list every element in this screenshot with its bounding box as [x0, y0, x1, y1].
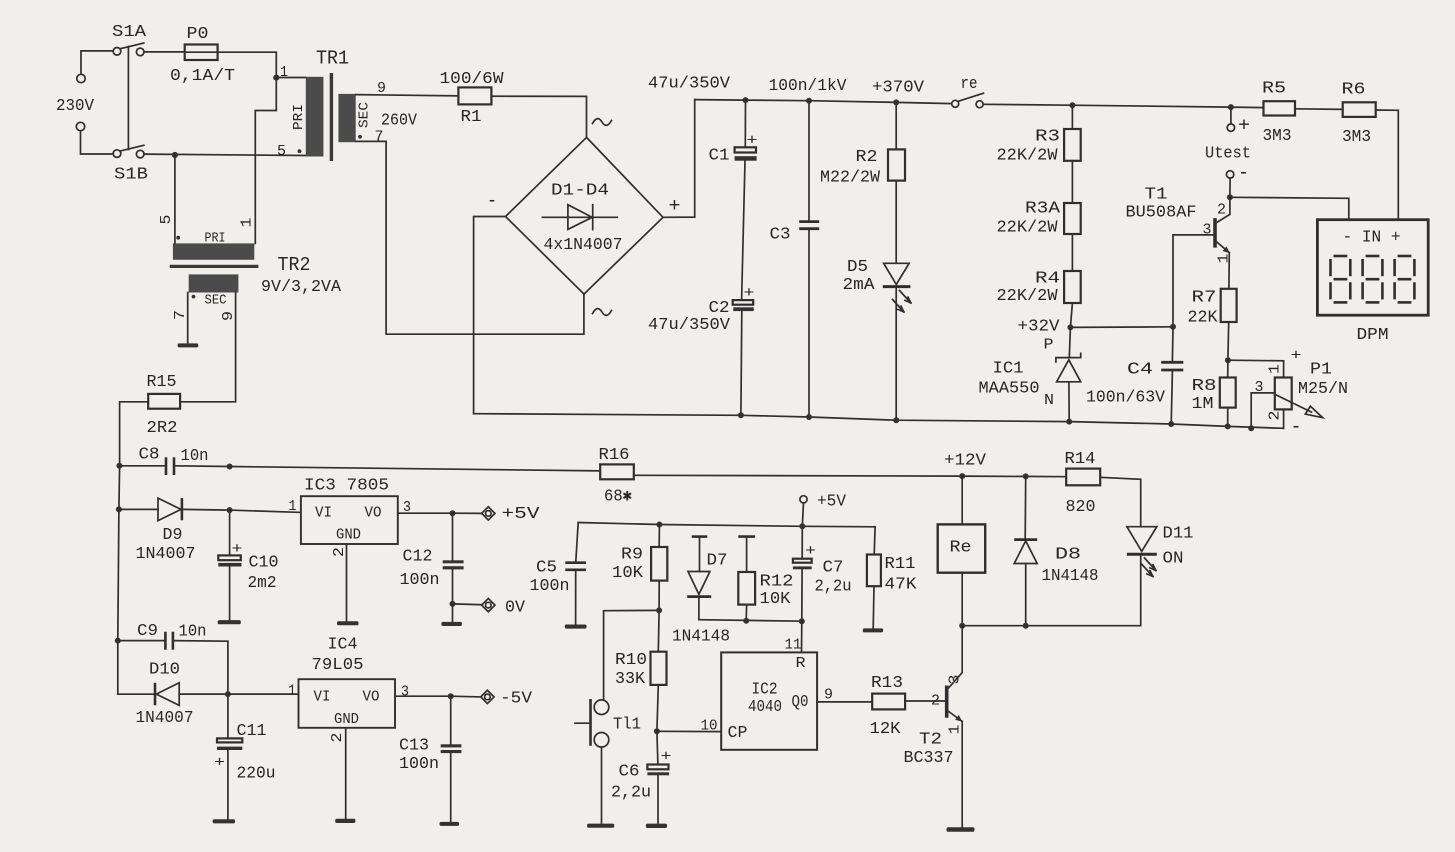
- svg-text:C12: C12: [403, 548, 433, 567]
- svg-text:10K: 10K: [760, 590, 792, 609]
- HV rail +370V: [695, 100, 952, 104]
- wire R14 to D11: [1100, 477, 1141, 526]
- svg-text:C5: C5: [536, 559, 557, 578]
- node C4 bottom: [1168, 421, 1174, 427]
- svg-text:GND: GND: [334, 711, 359, 728]
- potentiometer P1: [1275, 378, 1292, 410]
- svg-text:MAA550: MAA550: [979, 380, 1040, 399]
- node C3 bottom: [806, 414, 812, 420]
- capacitor C1: [744, 100, 746, 147]
- svg-text:22K/2W: 22K/2W: [997, 287, 1059, 306]
- resistor R16: [600, 464, 634, 479]
- gnd stem C12: [452, 604, 454, 622]
- svg-text:1: 1: [947, 725, 964, 735]
- svg-text:+: +: [214, 755, 225, 772]
- wire D11 down and relay return line: [962, 554, 1140, 625]
- IC3 gnd stem: [346, 544, 348, 621]
- ground T2: [947, 827, 975, 832]
- svg-text:10n: 10n: [179, 623, 207, 642]
- node pin1: [273, 75, 279, 81]
- wire Utest- to DPM: [1230, 197, 1349, 219]
- svg-text:230V: 230V: [56, 97, 95, 116]
- wire TR1 sec9 to R1: [356, 95, 459, 96]
- svg-text:1: 1: [239, 218, 256, 228]
- svg-text:re: re: [961, 75, 978, 94]
- node D9 right: [227, 507, 233, 513]
- svg-text:100n/1kV: 100n/1kV: [769, 77, 848, 96]
- svg-text:100/6W: 100/6W: [440, 70, 505, 89]
- node D10 right: [225, 691, 231, 697]
- terminal +5V: [482, 507, 495, 520]
- wire node to Tl1: [604, 610, 660, 699]
- svg-text:10K: 10K: [612, 564, 644, 583]
- DPM 7-seg digit 2: [1363, 256, 1383, 302]
- node D5 bottom: [893, 417, 899, 423]
- T1 base wire: [1173, 235, 1213, 327]
- svg-text:+: +: [1238, 115, 1250, 137]
- svg-text:79L05: 79L05: [312, 656, 364, 675]
- wire node to IC2 CP: [657, 730, 721, 732]
- svg-text:10n: 10n: [181, 447, 209, 466]
- svg-text:10: 10: [701, 718, 718, 735]
- resistor R5: [1264, 101, 1296, 115]
- transistor T1 base bar: [1213, 218, 1217, 248]
- IC2 4040 box: [721, 652, 817, 749]
- svg-text:+: +: [669, 195, 681, 217]
- svg-text:P: P: [1044, 337, 1054, 354]
- wire bridge minus to bottom bus: [474, 217, 506, 414]
- wire mains bottom: [81, 131, 113, 154]
- wire to -5V terminal: [451, 695, 481, 698]
- IC3 7805 box: [301, 496, 398, 544]
- svg-text:2mA: 2mA: [843, 276, 876, 295]
- node R8 bottom: [1225, 423, 1231, 429]
- T1 emitter: [1217, 242, 1230, 253]
- node R3 top: [1069, 102, 1075, 108]
- svg-text:3M3: 3M3: [1263, 127, 1292, 146]
- resistor R2: [895, 102, 897, 149]
- svg-text:R11: R11: [885, 555, 916, 574]
- svg-text:Utest: Utest: [1205, 145, 1251, 164]
- P1 bottom wire: [1283, 409, 1285, 428]
- ground R11: [863, 628, 883, 632]
- transformer TR2 primary winding: [173, 243, 254, 259]
- node +32V: [1067, 324, 1073, 330]
- svg-text:C7: C7: [823, 559, 844, 578]
- svg-text:9V/3,2VA: 9V/3,2VA: [261, 278, 342, 297]
- TR1 core: [330, 73, 333, 161]
- svg-text:5: 5: [277, 143, 286, 160]
- svg-text:22K: 22K: [1188, 309, 1219, 328]
- terminal 230V top: [77, 74, 85, 82]
- svg-text:IC2: IC2: [752, 681, 778, 700]
- svg-text:9: 9: [220, 311, 237, 321]
- pin dot TR1 sec 7: [358, 135, 362, 139]
- svg-text:R1: R1: [461, 108, 482, 127]
- wire R4 to +32V node: [1070, 303, 1072, 327]
- svg-text:VI: VI: [315, 505, 332, 522]
- relay Re box: [961, 476, 963, 524]
- switch re: [952, 100, 959, 107]
- svg-text:3: 3: [401, 684, 409, 701]
- svg-text:Tl1: Tl1: [613, 716, 641, 735]
- svg-text:C6: C6: [619, 763, 640, 782]
- svg-text:PRI: PRI: [291, 104, 307, 130]
- ground C13: [440, 822, 460, 826]
- svg-text:4x1N4007: 4x1N4007: [544, 236, 623, 255]
- svg-text:IC1: IC1: [993, 360, 1024, 379]
- svg-text:N: N: [1044, 392, 1054, 409]
- svg-text:33K: 33K: [615, 670, 646, 689]
- svg-text:M25/N: M25/N: [1298, 380, 1348, 399]
- capacitor C4: [1171, 327, 1174, 361]
- ground Tl1: [587, 824, 614, 828]
- svg-text:Q0: Q0: [792, 693, 809, 712]
- svg-text:- IN +: - IN +: [1343, 229, 1401, 248]
- ground C10: [218, 620, 241, 624]
- node C7 bottom / pin11: [799, 618, 805, 624]
- switch S1A: [113, 48, 121, 56]
- svg-text:7: 7: [172, 310, 189, 320]
- node D9 left: [116, 506, 122, 512]
- node D8 top: [1023, 473, 1029, 479]
- transistor T2 base bar: [945, 686, 949, 718]
- resistor R7: [1221, 289, 1237, 322]
- wire bridge plus up to rail: [663, 100, 695, 218]
- svg-text:P1: P1: [1310, 361, 1332, 380]
- svg-text:D11: D11: [1163, 525, 1194, 544]
- svg-text:SEC: SEC: [205, 293, 227, 309]
- capacitor C3: [808, 101, 810, 222]
- svg-text:100n/63V: 100n/63V: [1086, 389, 1166, 408]
- svg-text:ON: ON: [1163, 550, 1184, 569]
- svg-text:VI: VI: [314, 689, 331, 706]
- resistor R6: [1343, 102, 1376, 117]
- svg-text:T2: T2: [919, 731, 942, 750]
- svg-text:11: 11: [785, 637, 802, 654]
- svg-text:1: 1: [289, 498, 297, 515]
- svg-text:VO: VO: [365, 505, 382, 522]
- wire R1 to bridge top: [491, 96, 586, 137]
- capacitor C5: [576, 523, 578, 562]
- capacitor C10: [229, 510, 231, 555]
- node R10/C6/CP: [654, 728, 660, 734]
- svg-text:BU508AF: BU508AF: [1126, 204, 1197, 223]
- LED D11: [1127, 527, 1157, 552]
- svg-text:CP: CP: [728, 724, 748, 743]
- ground C11: [213, 819, 235, 823]
- svg-text:T1: T1: [1145, 186, 1168, 205]
- svg-text:0V: 0V: [505, 599, 526, 618]
- svg-text:0,1A/T: 0,1A/T: [170, 67, 235, 86]
- svg-text:R6: R6: [1342, 81, 1366, 100]
- svg-text:C11: C11: [237, 722, 267, 741]
- capacitor C11: [227, 694, 229, 738]
- node C8 left: [116, 463, 122, 469]
- svg-text:IC4: IC4: [328, 636, 358, 655]
- transistor T1 collector wire: [1217, 197, 1230, 222]
- svg-text:P0: P0: [187, 25, 209, 44]
- capacitor C7: [801, 526, 803, 558]
- ground C12: [441, 622, 462, 626]
- svg-text:R2: R2: [856, 148, 878, 167]
- capacitor C6: [657, 731, 658, 764]
- svg-text:GND: GND: [336, 527, 361, 544]
- pushbutton Tl1: [594, 700, 609, 715]
- svg-text:D9: D9: [163, 526, 183, 545]
- svg-text:R4: R4: [1035, 270, 1060, 289]
- DPM module box: [1317, 220, 1428, 316]
- node Re top: [959, 473, 965, 479]
- svg-text:2: 2: [931, 693, 940, 710]
- bridge inner diode: [542, 216, 617, 218]
- P1 wiper arm: [1276, 395, 1312, 413]
- svg-text:R15: R15: [147, 373, 177, 392]
- svg-text:2: 2: [1217, 202, 1226, 219]
- wire R16 to +12V line: [634, 474, 962, 477]
- Tl1 bottom to ground: [601, 747, 603, 824]
- svg-text:1: 1: [1267, 364, 1284, 374]
- svg-text:100n: 100n: [530, 577, 570, 596]
- svg-text:2R2: 2R2: [147, 419, 178, 438]
- svg-text:C1: C1: [709, 147, 730, 166]
- svg-text:1M: 1M: [1192, 395, 1214, 414]
- svg-text:+370V: +370V: [872, 79, 925, 98]
- svg-text:S1A: S1A: [112, 23, 147, 42]
- svg-text:R14: R14: [1065, 450, 1096, 469]
- resistor R12 with +5V tbar: [738, 535, 755, 538]
- svg-text:7: 7: [375, 129, 384, 146]
- svg-text:1N4007: 1N4007: [136, 709, 194, 728]
- svg-text:D7: D7: [707, 552, 728, 571]
- svg-text:9: 9: [824, 687, 833, 704]
- wire TR2 pin5: [174, 155, 176, 243]
- node IC1 bottom: [1066, 419, 1072, 425]
- node R12 bottom: [743, 618, 749, 624]
- wire R13 to T2 base: [905, 700, 945, 702]
- svg-text:+5V: +5V: [502, 505, 541, 524]
- resistor R3: [1071, 105, 1073, 129]
- wire TR1 sec7 down to bridge ac2: [356, 141, 584, 334]
- svg-text:820: 820: [1066, 498, 1096, 517]
- node C1 top: [743, 97, 749, 103]
- stub +5V to rail: [802, 503, 803, 526]
- svg-text:1N4148: 1N4148: [1042, 567, 1099, 586]
- terminal 0V: [482, 598, 495, 611]
- TR2 core: [170, 265, 259, 268]
- resistor R8: [1227, 360, 1229, 377]
- svg-text:-: -: [487, 190, 497, 212]
- node C3 top: [806, 98, 812, 104]
- HV rail after re: [983, 104, 1263, 107]
- svg-text:C13: C13: [399, 737, 429, 756]
- svg-text:C9: C9: [137, 622, 158, 641]
- svg-text:C8: C8: [139, 446, 160, 465]
- terminal 230V bottom: [76, 122, 84, 130]
- svg-text:S1B: S1B: [114, 165, 148, 184]
- wire TR2 sec9 down to R15: [180, 293, 236, 402]
- left vertical bus: [118, 466, 120, 694]
- svg-text:M22/2W: M22/2W: [820, 169, 881, 188]
- transformer TR1 primary winding: [306, 77, 324, 157]
- wire node to P1 top: [1228, 360, 1284, 377]
- wire D7/R12/C7 bottoms: [699, 620, 802, 622]
- svg-text:C4: C4: [1127, 361, 1153, 380]
- D5 light arrows: [900, 291, 911, 303]
- svg-text:R16: R16: [599, 446, 630, 465]
- transformer TR1 secondary winding: [338, 94, 355, 142]
- wire +32V to C4/T1 base line: [1070, 326, 1173, 329]
- pin dot TR2 pri 5: [176, 236, 180, 240]
- ground TR2: [178, 343, 199, 347]
- svg-text:TR2: TR2: [278, 254, 311, 276]
- svg-text:47u/350V: 47u/350V: [648, 316, 731, 335]
- wire to +5V terminal: [453, 512, 483, 514]
- svg-text:C10: C10: [249, 554, 279, 573]
- resistor R9: [658, 525, 660, 548]
- wire S1A to fuse: [144, 51, 185, 53]
- svg-text:C3: C3: [770, 226, 791, 245]
- node wiper bus: [1248, 425, 1254, 431]
- node C2 bottom: [738, 412, 744, 418]
- capacitor C12: [452, 513, 454, 560]
- svg-text:R3: R3: [1035, 128, 1060, 147]
- wire emitter to ground: [961, 721, 963, 827]
- node D8 bottom: [1023, 623, 1029, 629]
- node R7/R8: [1225, 357, 1231, 363]
- wire +12V to D8/R14: [962, 475, 1066, 478]
- node 0V: [450, 601, 456, 607]
- wire node1 jog to TR2 pin1: [255, 78, 276, 244]
- node C8 right: [227, 464, 233, 470]
- resistor R3A: [1071, 161, 1073, 203]
- svg-text:22K/2W: 22K/2W: [997, 147, 1059, 166]
- wire to 0V terminal: [453, 603, 483, 606]
- wire D10 to IC4: [228, 693, 299, 695]
- svg-text:4040: 4040: [748, 698, 782, 717]
- wire Q0 to R13: [817, 701, 872, 703]
- node Utest-: [1227, 194, 1233, 200]
- terminal +5V circle: [800, 496, 807, 503]
- node R9/R10: [656, 607, 662, 613]
- node R9 top: [656, 522, 662, 528]
- +5V rail: [578, 523, 875, 527]
- svg-text:IC3 7805: IC3 7805: [304, 477, 389, 496]
- resistor R1: [458, 87, 491, 104]
- node C12 top: [450, 510, 456, 516]
- svg-text:2,2u: 2,2u: [611, 784, 651, 803]
- svg-text:2: 2: [331, 547, 348, 557]
- svg-text:R12: R12: [760, 573, 794, 592]
- svg-text:100n: 100n: [399, 755, 439, 774]
- node S1B/TR2: [172, 152, 178, 158]
- svg-text:PRI: PRI: [205, 231, 226, 247]
- svg-text:47K: 47K: [885, 576, 918, 595]
- wire to IC2 R pin: [801, 621, 803, 652]
- resistor R14: [1066, 469, 1100, 486]
- svg-text:1N4148: 1N4148: [672, 628, 730, 647]
- ac tilde bottom: [593, 309, 612, 316]
- svg-text:D1-D4: D1-D4: [551, 182, 609, 201]
- switch link S1A-S1B: [127, 47, 129, 150]
- ground IC3: [337, 621, 359, 625]
- resistor R11: [873, 527, 876, 555]
- svg-text:+: +: [805, 543, 816, 560]
- svg-text:-: -: [1291, 416, 1302, 438]
- transformer TR2 secondary winding: [189, 274, 239, 292]
- svg-text:2: 2: [1267, 411, 1284, 421]
- ac tilde top: [593, 119, 612, 126]
- svg-text:260V: 260V: [381, 112, 418, 131]
- svg-text:DPM: DPM: [1357, 326, 1389, 345]
- terminal Utest +: [1230, 107, 1232, 124]
- svg-text:100n: 100n: [400, 571, 440, 590]
- IC4 gnd stem: [345, 728, 347, 819]
- svg-text:3: 3: [947, 675, 964, 685]
- wire R5-R6: [1295, 108, 1343, 111]
- bridge rectifier D1-D4 diamond: [506, 137, 664, 294]
- svg-text:D5: D5: [847, 258, 868, 277]
- IC4 79L05 box: [299, 679, 396, 728]
- svg-text:R13: R13: [871, 674, 903, 693]
- T2 emitter: [949, 712, 962, 722]
- node C4 junction: [1170, 324, 1176, 330]
- diode D7 with +5V tbar: [692, 535, 708, 538]
- svg-text:VO: VO: [363, 689, 380, 706]
- transistor T2 collector: [949, 626, 963, 688]
- terminal -5V: [481, 690, 494, 703]
- fuse P0: [185, 45, 218, 61]
- svg-text:SEC: SEC: [357, 102, 373, 128]
- bottom bus of HV section: [474, 414, 1284, 429]
- svg-text:R: R: [796, 655, 806, 672]
- resistor R13: [872, 694, 905, 710]
- IC3 out wire: [398, 512, 453, 514]
- svg-text:+: +: [661, 749, 672, 766]
- svg-text:22K/2W: 22K/2W: [997, 219, 1059, 238]
- svg-text:2,2u: 2,2u: [815, 578, 852, 597]
- node C13 top: [448, 693, 454, 699]
- svg-text:R9: R9: [621, 546, 643, 565]
- resistor R10: [657, 610, 660, 651]
- ground C6: [646, 824, 667, 828]
- wire TR2 sec7 to ground: [187, 293, 189, 344]
- wire fuse to TR1 pin1: [218, 52, 306, 77]
- wire S1B to TR1 pin5: [144, 154, 306, 155]
- svg-text:TR1: TR1: [316, 48, 349, 70]
- svg-text:2m2: 2m2: [248, 574, 277, 593]
- svg-text:1N4007: 1N4007: [136, 545, 196, 564]
- terminal Utest -: [1226, 171, 1233, 178]
- wire R15 left down: [120, 402, 149, 466]
- IC4 out wire: [395, 695, 451, 697]
- diode D9: [119, 508, 158, 510]
- svg-text:D8: D8: [1055, 546, 1081, 565]
- svg-text:220u: 220u: [237, 765, 276, 784]
- wire C8 to R16: [230, 467, 601, 471]
- node R2 top: [893, 99, 899, 105]
- capacitor C13: [450, 696, 452, 744]
- svg-text:3M3: 3M3: [1342, 128, 1371, 147]
- svg-text:R10: R10: [615, 651, 647, 670]
- P1 wiper wire: [1251, 393, 1275, 428]
- node C9 left: [115, 638, 121, 644]
- svg-text:BC337: BC337: [904, 749, 954, 768]
- svg-text:1: 1: [280, 64, 288, 81]
- svg-text:12K: 12K: [870, 720, 902, 739]
- svg-text:R7: R7: [1192, 289, 1217, 308]
- LED D5: [884, 263, 909, 284]
